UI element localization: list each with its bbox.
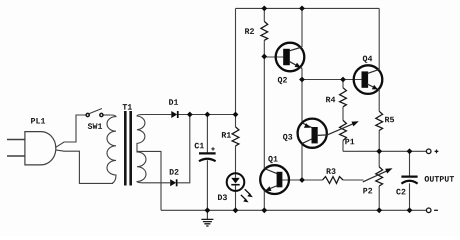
wire C2 leads	[409, 151, 411, 210]
label P2	[363, 188, 372, 194]
label R4	[326, 97, 335, 103]
node C1 top	[205, 112, 211, 118]
node junction dots	[187, 6, 412, 214]
wire R1 column top	[235, 8, 237, 127]
transformer T1 core bars	[124, 111, 127, 186]
wire secondary bottom to D2	[142, 182, 170, 184]
wire R4 top lead	[342, 80, 344, 88]
wire R4 to P1	[342, 107, 344, 121]
wire D1 cathode to mid rail	[179, 114, 236, 116]
node Q2-Q3 emitters	[299, 77, 305, 83]
transistor Q3	[298, 119, 328, 148]
wire center tap to bottom rail	[137, 151, 161, 210]
wire R3 left lead	[302, 179, 323, 181]
wire C1 leads	[206, 115, 208, 211]
wire ground stub	[206, 210, 208, 219]
wire D3 to bottom rail	[235, 185, 237, 211]
label D2	[170, 169, 179, 175]
wire Q4 collector to top rail	[378, 8, 380, 69]
transformer T1 primary winding	[107, 115, 116, 183]
label R1	[222, 132, 231, 138]
label R5	[385, 117, 394, 123]
label R2	[245, 28, 254, 34]
label SW1	[88, 123, 102, 129]
plug PL1 prongs	[7, 140, 25, 157]
wire Q3 emitter up	[301, 80, 303, 123]
plus sign output	[435, 150, 439, 154]
wire Q2 emitter down	[301, 68, 303, 79]
wire R5 bottom to output rail	[378, 131, 380, 152]
capacitor C2	[401, 177, 417, 184]
wire Q4 emitter to R5	[378, 90, 380, 111]
node R2 top	[261, 6, 267, 12]
wire D2 cathode up to mid rail	[178, 115, 190, 183]
wire emitter node to Q4 base	[302, 79, 362, 81]
wire output plus rail	[343, 150, 426, 152]
wire cord bottom conductor to primary	[56, 150, 113, 184]
wire R1 to D3	[235, 146, 237, 178]
plug PL1 body	[25, 132, 56, 165]
capacitor C1	[199, 153, 216, 161]
label PL1	[31, 118, 45, 124]
resistor R2	[261, 21, 268, 40]
label P1	[345, 139, 354, 145]
potentiometer P2 body	[376, 167, 383, 186]
potentiometer P1 wiper arrow	[327, 121, 359, 135]
node Q1 emitter bottom	[261, 207, 267, 213]
node D3 bottom	[233, 207, 239, 213]
transistor Q4	[354, 65, 383, 94]
node Q2 base	[261, 54, 267, 60]
minus sign output	[434, 209, 438, 211]
label D1	[169, 99, 178, 105]
node C2 top	[407, 148, 413, 154]
wire P1 bottom to output rail	[342, 141, 344, 152]
node Q1 base	[299, 177, 305, 183]
label Q4	[363, 56, 372, 63]
label T1	[123, 104, 132, 110]
node P2 bottom	[376, 207, 382, 213]
label OUTPUT	[425, 176, 454, 182]
wire R3 right lead	[343, 179, 363, 181]
capacitor C1 plus sign	[211, 147, 214, 150]
wire Q2 base	[264, 56, 283, 58]
wire SW1 to transformer primary	[103, 114, 110, 116]
wire top rail	[236, 7, 380, 9]
node R4 top	[340, 77, 346, 83]
node ground	[205, 207, 211, 213]
diode D2	[170, 179, 177, 186]
label D3	[218, 194, 227, 200]
node R5-P2	[376, 148, 382, 154]
output terminal plus	[426, 149, 431, 154]
switch SW1	[86, 109, 103, 117]
ground	[201, 219, 213, 226]
wire P2 top lead	[378, 151, 380, 167]
label Q3	[283, 134, 292, 141]
wire R2 leads	[263, 8, 265, 57]
label Q2	[278, 77, 287, 84]
output terminal minus	[426, 208, 431, 213]
node C2 bottom	[407, 207, 413, 213]
node Q2 collector top	[299, 6, 305, 12]
wire Q2 base node down to Q1 collector	[263, 57, 265, 169]
transistor Q2	[276, 43, 305, 72]
resistor R3	[323, 177, 344, 184]
diode D1	[171, 111, 178, 118]
resistor R4	[340, 88, 347, 107]
transistor Q1	[260, 165, 289, 194]
node mid rail right	[233, 112, 239, 118]
wire cord top conductor to SW1	[56, 115, 86, 147]
potentiometer P1 body	[340, 120, 347, 140]
resistor R1	[232, 127, 239, 146]
wire bottom rail	[161, 209, 426, 211]
label Q1	[268, 156, 277, 163]
wire Q3 collector down to Q1 base node	[301, 144, 303, 180]
label C2	[396, 189, 405, 195]
node D2-D1 junction	[187, 112, 193, 118]
LED D3	[227, 173, 253, 202]
transformer T1 secondary winding	[137, 115, 146, 183]
label R3	[327, 168, 336, 174]
label C1	[195, 143, 204, 149]
wire Q1 emitter to bottom rail	[263, 191, 265, 210]
wire Q1 base	[282, 179, 302, 181]
potentiometer P2 wiper arrow	[363, 168, 393, 182]
resistor R5	[376, 111, 383, 130]
wire P2 bottom lead	[378, 186, 380, 210]
wire Q2 collector to top rail	[301, 8, 303, 47]
wire secondary top to D1	[144, 114, 172, 116]
